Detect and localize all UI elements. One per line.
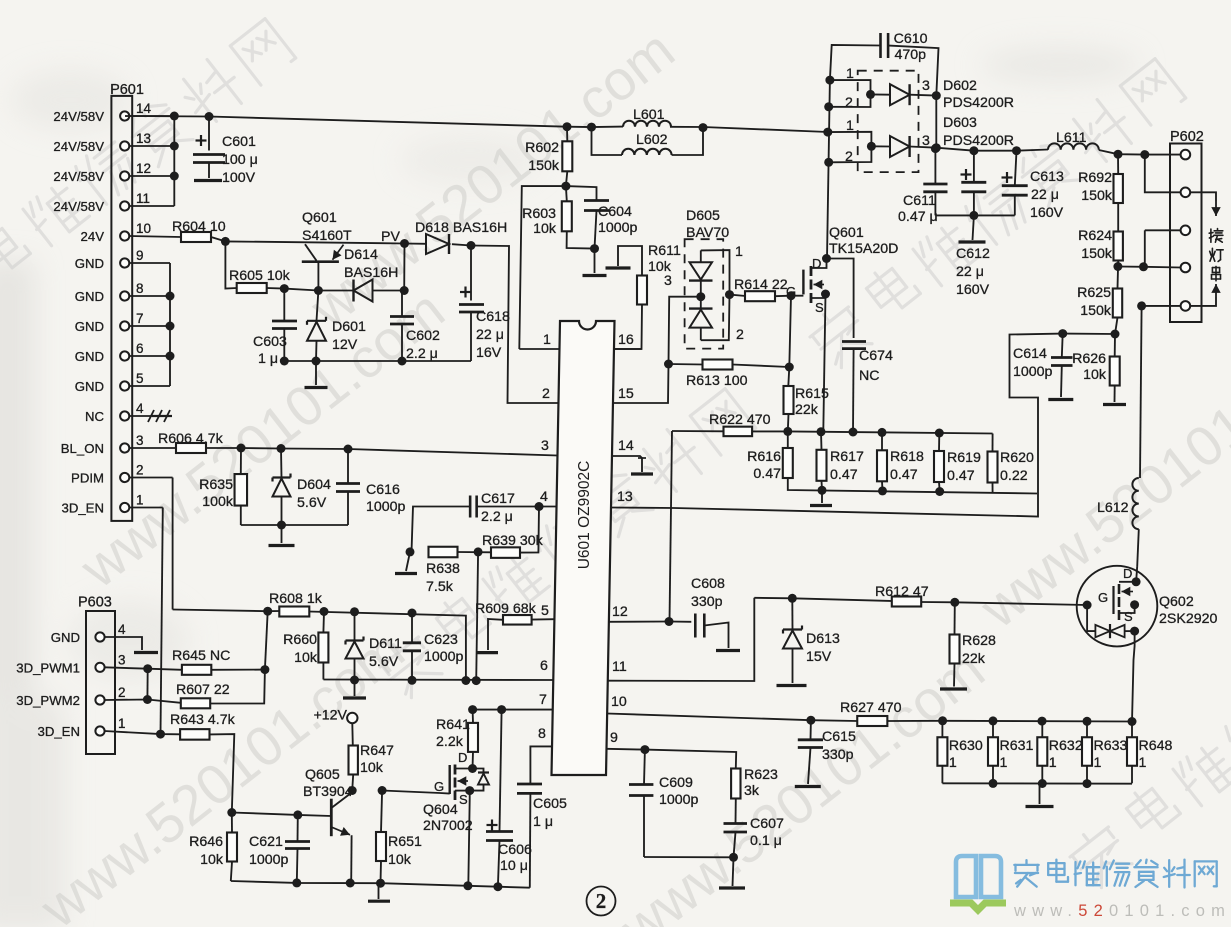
svg-text:NC: NC <box>859 368 880 384</box>
capacitor C618 <box>459 246 484 362</box>
label D603 pin2 <box>845 149 853 165</box>
label R632 <box>1049 738 1083 754</box>
svg-text:1000p: 1000p <box>424 649 464 665</box>
junction dots shunt bus top <box>938 716 1136 726</box>
label D Q602 <box>1123 566 1132 581</box>
label pin10 <box>611 694 627 710</box>
label C607 value <box>750 833 782 849</box>
svg-text:D618 BAS16H: D618 BAS16H <box>415 220 507 236</box>
svg-text:1: 1 <box>136 493 144 508</box>
label C613 voltage <box>1030 205 1064 221</box>
resistor R602 <box>562 141 572 171</box>
wire P601.9 stub <box>129 262 170 264</box>
wire R628 bottom <box>953 664 956 687</box>
svg-text:3D_PWM1: 3D_PWM1 <box>16 660 80 675</box>
svg-text:GND: GND <box>75 379 104 394</box>
label R620 value <box>1000 468 1028 484</box>
wire R620 stub top <box>992 434 994 452</box>
label C604 value <box>598 220 638 236</box>
ground at D611 <box>343 680 366 698</box>
label R616 value <box>753 466 781 482</box>
wire R643 out <box>210 734 235 812</box>
junction dot pin9 node <box>640 745 649 754</box>
P601 pin 6 (GND) <box>75 341 144 364</box>
wire shunt bus bottom <box>942 782 1132 784</box>
junction dot pin4 node <box>535 502 544 511</box>
ground at D604 <box>269 525 295 546</box>
wire R605 right <box>267 288 354 291</box>
capacitor C608 <box>695 614 704 638</box>
page number circled 2 <box>587 887 616 916</box>
label R622 <box>709 412 771 428</box>
svg-text:R624: R624 <box>1078 228 1112 244</box>
wire R602 bottom <box>566 171 567 186</box>
svg-text:C610: C610 <box>894 31 928 47</box>
svg-text:C606: C606 <box>498 842 532 858</box>
svg-text:R692: R692 <box>1078 170 1112 186</box>
junction dot D605 out <box>725 290 734 299</box>
wire chain2 <box>1117 203 1119 232</box>
svg-text:1: 1 <box>543 332 551 348</box>
wire Q601 source drop <box>823 294 825 432</box>
svg-text:L602: L602 <box>636 132 668 148</box>
label R605 <box>229 268 291 284</box>
label L612 <box>1097 500 1129 516</box>
svg-text:C602: C602 <box>406 328 440 344</box>
label L611 <box>1056 130 1087 146</box>
label R619 <box>947 450 981 466</box>
svg-text:13: 13 <box>136 131 151 146</box>
svg-text:D: D <box>1123 566 1132 581</box>
svg-text:PV: PV <box>381 229 400 245</box>
chassis ground at P601 pin4 <box>148 410 172 422</box>
label C604 <box>598 204 632 220</box>
resistor R645 <box>182 665 211 675</box>
junction dot row5 <box>1137 301 1146 310</box>
junction dot R638/R639 <box>474 547 483 556</box>
label C674 NC <box>859 368 880 384</box>
zener diode D611 <box>346 612 364 680</box>
svg-text:7: 7 <box>539 692 547 708</box>
wire C609/C607 bottom <box>644 856 734 858</box>
svg-text:100k: 100k <box>202 494 234 510</box>
wire pin15 <box>613 364 669 403</box>
junction dots main rail <box>205 112 597 132</box>
label D613 value <box>806 649 832 665</box>
svg-text:1: 1 <box>735 244 743 260</box>
svg-text:0.47: 0.47 <box>753 466 781 482</box>
resistor R626 <box>1110 357 1120 386</box>
svg-text:12: 12 <box>136 161 151 176</box>
diode D605a (top) <box>689 250 713 296</box>
svg-text:1000p: 1000p <box>366 499 406 515</box>
label R617 value <box>830 467 858 483</box>
label pin5 <box>541 603 549 619</box>
resistor R638 <box>429 547 458 558</box>
wire P603.4 stub <box>105 637 142 650</box>
label Q604 part <box>423 818 473 834</box>
capacitor C623 <box>403 613 421 680</box>
label R630 value <box>949 755 957 771</box>
label D602 pin2 <box>845 95 853 111</box>
label C610 <box>894 31 928 47</box>
resistor R628 <box>950 635 960 664</box>
svg-text:3D_EN: 3D_EN <box>37 724 80 739</box>
resistor R623 <box>731 769 740 799</box>
junction dots pin6 bus <box>350 676 481 686</box>
svg-text:C674: C674 <box>859 348 893 364</box>
label pin1 <box>543 332 551 348</box>
ground at R628 <box>940 687 967 690</box>
junction dots node line <box>263 607 416 618</box>
label D603 pin3 <box>922 133 930 149</box>
resistor R609 <box>503 615 532 625</box>
label L601 <box>633 107 665 123</box>
P601 pin 1 (3D_EN) <box>61 493 143 516</box>
label D604 value <box>297 495 327 511</box>
svg-text:150k: 150k <box>1081 246 1113 262</box>
label D605 pin1 <box>735 244 743 260</box>
svg-text:PDS4200R: PDS4200R <box>943 95 1014 111</box>
svg-text:11: 11 <box>612 659 627 675</box>
wire R617 stub top <box>820 432 823 450</box>
wire pin8 <box>530 746 552 784</box>
label C608 value <box>691 594 723 610</box>
label R611 value <box>648 259 672 275</box>
svg-text:GND: GND <box>75 289 104 304</box>
P601 pin 10 (24V) <box>81 221 152 244</box>
resistor R635 <box>235 474 248 506</box>
label C611 value <box>898 209 938 225</box>
svg-text:14: 14 <box>136 101 152 116</box>
junction dot Q604 S <box>465 786 474 795</box>
capacitor C613 <box>1002 151 1028 216</box>
svg-text:1: 1 <box>1139 755 1147 771</box>
svg-text:R647: R647 <box>360 743 394 759</box>
ground at bottom bus <box>368 883 390 901</box>
svg-text:3: 3 <box>922 78 930 94</box>
resistor R606 <box>176 443 206 453</box>
svg-text:2: 2 <box>845 149 853 165</box>
resistor R627 <box>857 716 887 726</box>
wire R618 stub bottom <box>881 481 884 491</box>
svg-text:160V: 160V <box>956 282 990 298</box>
svg-text:4: 4 <box>136 401 144 416</box>
wire sense bus top <box>788 431 993 433</box>
label pin8 <box>538 726 546 742</box>
resistor R633 <box>1082 737 1092 766</box>
wire R617 stub bottom <box>821 481 824 491</box>
label R626 value <box>1083 367 1107 383</box>
wire R630 bottom stub <box>941 766 943 784</box>
capacitor C621 <box>285 815 310 883</box>
wire R603 bottom <box>567 231 595 248</box>
wire P601.10 to R604 <box>129 236 181 237</box>
wire R611 top <box>618 246 642 276</box>
label D603 part <box>943 133 1014 149</box>
wire gate drive line <box>754 598 892 601</box>
junction dots D60x pin3 <box>932 91 941 152</box>
svg-text:16: 16 <box>618 332 634 348</box>
svg-text:24V: 24V <box>81 229 105 244</box>
wire node line <box>173 610 280 612</box>
svg-text:C611: C611 <box>903 193 936 209</box>
junction dot R613 node <box>785 363 794 372</box>
label C603 value <box>258 351 278 367</box>
P601 pin 9 (GND) <box>75 248 144 271</box>
svg-text:R616: R616 <box>747 449 781 465</box>
wire R619 stub bottom <box>938 482 941 492</box>
label R628 value <box>962 651 986 667</box>
svg-text:22 μ: 22 μ <box>956 264 984 280</box>
wire output rail after L611 <box>1099 150 1181 155</box>
svg-text:24V/58V: 24V/58V <box>53 109 104 124</box>
inductor L612 <box>1132 478 1138 529</box>
svg-text:R623: R623 <box>744 767 778 783</box>
label pin12 <box>612 604 628 620</box>
wire pin9 line <box>606 748 644 751</box>
label R660 value <box>294 650 318 666</box>
junction dot R602 out <box>561 182 570 191</box>
svg-text:24V/58V: 24V/58V <box>53 199 104 214</box>
svg-text:0.47: 0.47 <box>890 467 918 483</box>
P601 pin 7 (GND) <box>75 311 144 334</box>
label D602 pin3 <box>922 78 930 94</box>
wire R646 bottom <box>231 862 232 882</box>
svg-text:R633: R633 <box>1094 738 1128 754</box>
wire R660 bottom <box>322 663 324 680</box>
ground at D613 <box>777 684 807 687</box>
svg-text:R651: R651 <box>388 834 422 850</box>
svg-text:3: 3 <box>118 652 126 667</box>
wire R614 to gate <box>775 295 804 298</box>
wire R620 stub bottom <box>992 483 994 494</box>
capacitor C606 <box>486 710 513 887</box>
resistor R620 <box>988 452 998 483</box>
wire R641 bottom <box>472 752 475 769</box>
wire R630 top stub <box>941 721 943 737</box>
svg-text:10k: 10k <box>200 852 224 868</box>
wire node to pin1 drop <box>519 186 566 349</box>
svg-text:3: 3 <box>922 133 930 149</box>
zener diode D613 <box>783 598 802 683</box>
diodes D602/D603 dashed box <box>858 71 919 172</box>
wire Q602 drain up <box>1136 566 1137 581</box>
resistor R647 <box>349 746 358 775</box>
label D601 <box>332 319 366 335</box>
junction dot 3D_EN <box>156 730 165 739</box>
ground at sense bus <box>810 490 832 505</box>
ground at pin14 <box>631 458 653 474</box>
wire R626 top <box>1114 334 1116 357</box>
svg-text:10: 10 <box>611 694 627 710</box>
label D614 part <box>344 265 398 281</box>
junction dot D605 common <box>696 292 705 301</box>
svg-text:www.520101.com: www.520101.com <box>1013 902 1231 920</box>
junction dots GND tie <box>166 292 175 361</box>
svg-text:C613: C613 <box>1030 169 1064 185</box>
svg-text:GND: GND <box>75 319 104 334</box>
connector P603 box <box>78 595 115 755</box>
label C614 <box>1013 346 1047 362</box>
wire R646 top <box>231 813 233 833</box>
label G Q601 <box>786 284 796 299</box>
label D611 value <box>369 654 399 670</box>
svg-text:R605 10k: R605 10k <box>229 268 291 284</box>
svg-text:C614: C614 <box>1013 346 1047 362</box>
svg-text:12V: 12V <box>332 337 358 353</box>
junction dot chain row4 <box>1113 262 1122 271</box>
svg-text:D601: D601 <box>332 319 366 335</box>
junction dots clamp bus <box>280 357 407 366</box>
terminal +12V <box>313 708 357 724</box>
label C605 <box>533 796 567 812</box>
label R614 <box>734 277 788 293</box>
svg-text:C609: C609 <box>659 775 693 791</box>
wire P603.1 line <box>105 731 181 734</box>
svg-text:BAV70: BAV70 <box>686 225 729 241</box>
P601 pin 2 (PDIM) <box>71 463 143 486</box>
P601 pin 14 (24V/58V) <box>53 101 151 124</box>
wire Q601 drain to C674 <box>827 259 854 339</box>
svg-text:470p: 470p <box>895 47 927 63</box>
svg-text:C617: C617 <box>481 491 515 507</box>
svg-text:16V: 16V <box>476 345 502 361</box>
svg-text:2: 2 <box>845 95 853 111</box>
diode D603 <box>828 132 937 163</box>
label R618 value <box>890 467 918 483</box>
capacitor C605 <box>517 784 542 888</box>
svg-text:5.6V: 5.6V <box>297 495 327 511</box>
label C617 value <box>481 509 513 525</box>
label pin9 <box>610 730 618 746</box>
svg-text:C607: C607 <box>750 816 784 832</box>
svg-text:2: 2 <box>136 463 144 478</box>
label Q602 part <box>1159 611 1217 627</box>
ground at C615 <box>795 785 821 788</box>
svg-text:R625: R625 <box>1077 285 1111 301</box>
svg-text:P602: P602 <box>1170 129 1204 145</box>
junction dot C604 bottom <box>590 244 599 253</box>
wire chain <box>1117 154 1119 174</box>
wire R619 stub top <box>938 433 940 451</box>
svg-text:22 μ: 22 μ <box>1031 187 1059 203</box>
svg-text:3: 3 <box>664 273 672 289</box>
P601 pin 12 (24V/58V) <box>53 161 151 184</box>
svg-text:R631: R631 <box>1000 738 1034 754</box>
label Q602 <box>1159 594 1194 610</box>
svg-text:330p: 330p <box>822 747 854 763</box>
svg-text:C612: C612 <box>956 246 990 262</box>
svg-text:Q601: Q601 <box>829 225 864 241</box>
junction dots Q602 <box>1083 577 1141 635</box>
svg-text:D605: D605 <box>686 208 720 224</box>
svg-text:D: D <box>812 256 821 271</box>
svg-text:100V: 100V <box>222 170 256 186</box>
label C623 <box>424 632 458 648</box>
wire P601.8 stub <box>129 295 170 297</box>
svg-text:R602: R602 <box>525 140 559 156</box>
wire P601.14 stub <box>129 115 174 117</box>
P601 pin 3 (BL_ON) <box>61 433 144 456</box>
svg-text:R627 470: R627 470 <box>840 700 902 716</box>
junction dot Q601 S <box>821 290 830 299</box>
label R641 value <box>436 734 464 750</box>
svg-text:24V/58V: 24V/58V <box>53 169 104 184</box>
svg-text:S: S <box>459 792 468 807</box>
wire R651 bottom <box>380 861 383 883</box>
label R648 <box>1139 738 1173 754</box>
junction dots pin7 node <box>468 705 506 714</box>
svg-text:1000p: 1000p <box>659 792 699 808</box>
label R647 value <box>360 760 384 776</box>
label C606 <box>498 842 532 858</box>
label 接灯串 (lamp string) <box>1209 229 1223 281</box>
svg-text:2: 2 <box>736 327 744 343</box>
label C674 <box>859 348 893 364</box>
svg-text:Q604: Q604 <box>423 802 458 818</box>
svg-text:PDIM: PDIM <box>71 471 104 486</box>
label D602 pin1 <box>846 66 854 82</box>
label C617 <box>481 491 515 507</box>
svg-text:2N7002: 2N7002 <box>423 818 473 834</box>
label R625 <box>1077 285 1111 301</box>
label PV node <box>381 229 400 245</box>
label L602 <box>636 132 668 148</box>
wire R638 to R639 <box>458 551 492 553</box>
wire main rail L601 to D603 <box>670 127 828 132</box>
svg-text:C604: C604 <box>598 204 632 220</box>
label R639 <box>482 533 544 549</box>
capacitor C615 <box>798 720 823 784</box>
svg-text:6: 6 <box>136 341 144 356</box>
svg-text:10k: 10k <box>388 852 412 868</box>
svg-text:R648: R648 <box>1139 738 1173 754</box>
label D618 <box>415 220 507 236</box>
svg-text:R608 1k: R608 1k <box>269 591 323 607</box>
label C610 value <box>895 47 927 63</box>
wire D605 common to pin15 node <box>669 297 701 364</box>
label D Q604 <box>458 750 467 765</box>
svg-text:R603: R603 <box>522 206 556 222</box>
svg-text:R635: R635 <box>199 477 233 493</box>
label R623 value <box>744 783 760 799</box>
label C612 <box>956 246 990 262</box>
wire R628 top <box>954 602 956 634</box>
resistor R603 <box>562 201 572 231</box>
wire R633 bottom stub <box>1086 766 1088 784</box>
wire R632 top stub <box>1041 721 1043 737</box>
junction dot clamp bus <box>277 521 286 530</box>
svg-text:2.2 μ: 2.2 μ <box>481 509 513 525</box>
connector P602 box <box>1170 129 1204 322</box>
zener diode D604 <box>273 449 291 526</box>
wire R660 top <box>322 612 325 633</box>
label S Q602 <box>1124 609 1133 624</box>
svg-text:5.6V: 5.6V <box>369 654 399 670</box>
svg-text:7: 7 <box>136 311 144 326</box>
ground at R609 <box>477 651 498 654</box>
svg-text:D603: D603 <box>943 115 977 131</box>
wire sense bus bottom <box>788 478 1037 494</box>
label R620 <box>1000 450 1034 466</box>
svg-text:0.22: 0.22 <box>1000 468 1028 484</box>
transistor Q604 2N7002 <box>450 765 489 801</box>
svg-text:PDS4200R: PDS4200R <box>943 133 1014 149</box>
wire R631 bottom stub <box>992 766 994 784</box>
wire bottom bus <box>231 881 530 888</box>
inductor L601 <box>623 121 671 127</box>
